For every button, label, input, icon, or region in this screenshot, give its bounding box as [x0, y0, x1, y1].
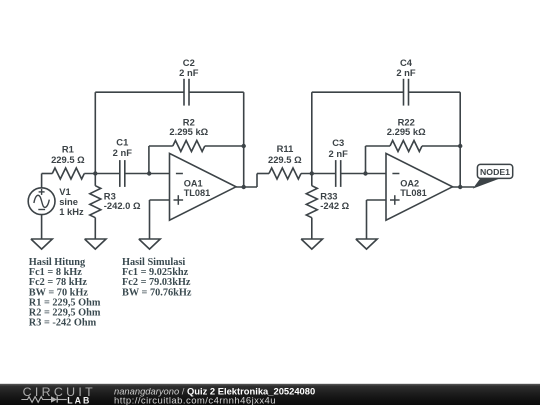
wire OA2 output	[452, 186, 474, 188]
svg-text:R3 = -242 Ohm: R3 = -242 Ohm	[29, 318, 97, 329]
svg-text:R1: R1	[62, 144, 74, 155]
junction R2-C2 right	[242, 144, 246, 148]
svg-text:TL081: TL081	[400, 188, 427, 198]
wire V1 top to R1	[42, 174, 53, 188]
svg-text:2.295 kΩ: 2.295 kΩ	[169, 126, 208, 137]
ground for V1	[31, 239, 52, 249]
resistor R3	[90, 174, 101, 240]
ground for R3	[85, 239, 106, 249]
op-amp OA2	[386, 153, 453, 220]
net flag NODE1	[474, 164, 513, 187]
label C4 2 nF	[396, 57, 416, 78]
node OA2 output junction NODE1	[458, 185, 462, 189]
resistor R22 feedback wires	[366, 146, 461, 174]
label C3 2 nF	[329, 137, 349, 159]
op-amp OA1	[170, 153, 237, 220]
svg-text:R11: R11	[277, 143, 294, 154]
label R1 229.5 ohm	[51, 144, 85, 166]
wire C1 to op-amp inverting input	[125, 173, 170, 175]
ground for R33	[301, 239, 322, 249]
svg-text:229.5 Ω: 229.5 Ω	[51, 154, 85, 165]
capacitor C3	[335, 160, 337, 187]
svg-text:LAB: LAB	[67, 395, 91, 405]
wire R1 to node A	[84, 173, 120, 175]
resistor R11	[269, 168, 301, 179]
capacitor C2 feedback branch wires	[95, 92, 243, 187]
label R3 -242.0 ohm	[104, 190, 141, 211]
annotation Hasil Simulasi block	[122, 257, 192, 298]
svg-text:OA1: OA1	[184, 178, 203, 188]
svg-text:229.5 Ω: 229.5 Ω	[268, 154, 302, 165]
node A junction	[93, 171, 97, 175]
resistor R2 feedback wires	[149, 146, 244, 174]
capacitor C2	[183, 79, 185, 106]
wire OA2 non-inverting input to ground	[367, 200, 387, 239]
node D junction	[363, 171, 367, 175]
wire C3 to OA2 inverting input	[341, 173, 386, 175]
svg-text:http://circuitlab.com/c4rnnh46: http://circuitlab.com/c4rnnh46jxx4u	[114, 396, 276, 405]
svg-text:C3: C3	[332, 137, 344, 148]
capacitor C4 branch wires	[312, 92, 460, 187]
resistor R33	[306, 174, 317, 240]
ground for OA1	[139, 239, 160, 249]
node C junction	[310, 171, 314, 175]
svg-text:1 kHz: 1 kHz	[59, 206, 84, 217]
svg-text:NODE1: NODE1	[480, 167, 510, 177]
resistor R2	[173, 141, 205, 152]
label V1 sine 1 kHz	[59, 186, 84, 217]
annotation Hasil Hitung block	[29, 257, 101, 329]
voltage source V1	[28, 188, 55, 215]
svg-text:TL081: TL081	[184, 188, 211, 198]
resistor R1	[52, 168, 84, 179]
CircuitLab logo wire resistor diode	[21, 396, 66, 402]
resistor R22	[390, 141, 422, 152]
svg-text:2.295 kΩ: 2.295 kΩ	[387, 126, 426, 137]
junction R22-C4 right	[458, 144, 462, 148]
capacitor C4	[403, 79, 405, 106]
label C2 2 nF	[179, 57, 199, 78]
ground for OA2	[356, 239, 377, 249]
svg-text:2 nF: 2 nF	[113, 147, 133, 158]
capacitor C1	[119, 160, 121, 187]
label C1 2 nF	[113, 137, 133, 158]
wire R11 to node C	[301, 173, 336, 175]
svg-text:-242.0 Ω: -242.0 Ω	[104, 200, 141, 211]
node B junction	[147, 171, 151, 175]
label R22 2.295 kohm	[387, 117, 426, 138]
svg-text:OA2: OA2	[400, 178, 419, 188]
svg-text:2 nF: 2 nF	[329, 148, 349, 159]
wire OA1 output	[236, 186, 257, 188]
label R2 2.295 kohm	[169, 116, 208, 136]
wire OA1 non-inverting input to ground	[150, 200, 170, 239]
wire to R11	[257, 174, 269, 188]
label R33 -242 ohm	[320, 190, 349, 211]
label R11 229.5 ohm	[268, 143, 302, 165]
svg-text:2 nF: 2 nF	[396, 67, 416, 78]
svg-text:2 nF: 2 nF	[179, 67, 199, 78]
svg-text:-242 Ω: -242 Ω	[320, 200, 349, 211]
svg-text:BW = 70.76kHz: BW = 70.76kHz	[122, 287, 192, 298]
wire V1 bottom to ground	[41, 215, 43, 239]
node OA1 output junction	[242, 185, 246, 189]
